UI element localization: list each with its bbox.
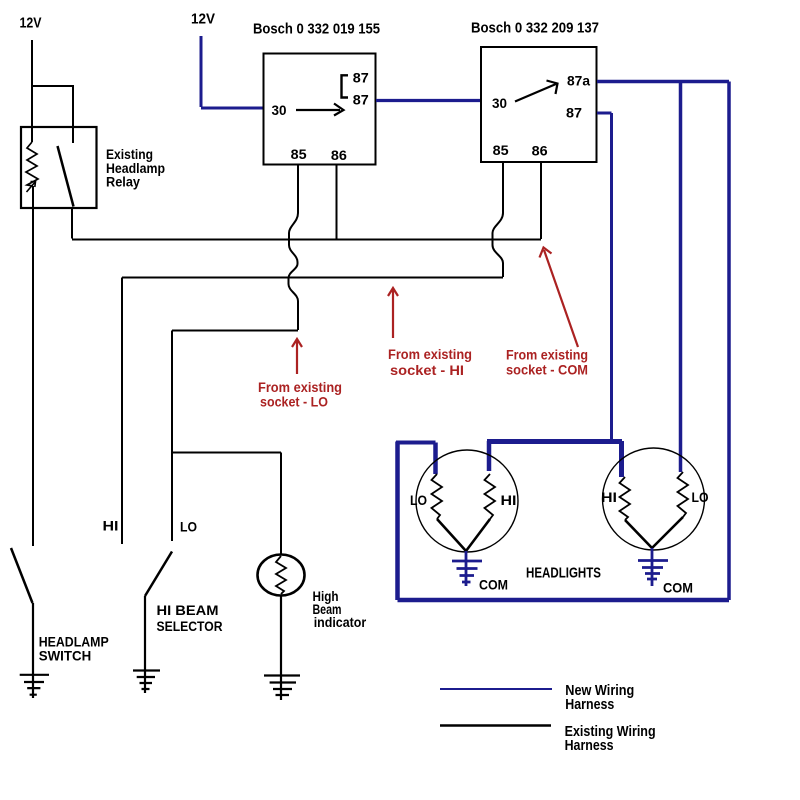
existing headlamp relay box xyxy=(21,127,97,208)
wire HI line horizontal xyxy=(122,277,503,279)
wire HI bus horizontal (new, blue) xyxy=(487,439,622,444)
svg-text:Bosch 0 332 209 137: Bosch 0 332 209 137 xyxy=(471,20,599,37)
svg-text:86: 86 xyxy=(331,148,348,163)
right HI filament xyxy=(620,477,631,520)
right HI filament lead xyxy=(625,520,652,548)
headlamp switch arm xyxy=(11,548,33,603)
wire U1 pin 86 down to COM line xyxy=(336,165,338,239)
wire relay output down xyxy=(71,208,73,239)
svg-text:COM: COM xyxy=(479,578,508,593)
high beam indicator lamp xyxy=(258,555,305,596)
wire LO loop bottom edge (new, blue) xyxy=(398,598,730,603)
wire HI drop to right headlight xyxy=(619,441,624,477)
left HI filament lead xyxy=(466,519,490,551)
relay coil (zigzag) xyxy=(26,142,38,186)
U1 87 bracket xyxy=(342,75,349,97)
wire U1 87 to U2 30 (new, blue) xyxy=(376,99,481,102)
wire HI drop to selector xyxy=(121,278,123,545)
hi beam selector arm xyxy=(145,552,172,597)
svg-text:Relay: Relay xyxy=(106,175,140,190)
wire 12V feed to relay U1 pin 30 (new, blue) xyxy=(201,36,263,108)
wire branch to existing relay switch contact xyxy=(31,86,73,143)
svg-text:HEADLAMP: HEADLAMP xyxy=(39,635,109,650)
svg-text:LO: LO xyxy=(692,490,709,505)
indicator filament xyxy=(276,556,286,594)
svg-text:HI: HI xyxy=(103,519,119,534)
svg-text:LO: LO xyxy=(180,520,197,535)
wire U2 87 HI feed (new, blue) xyxy=(597,113,612,440)
U1 contact arrow 30 to 87 xyxy=(296,104,344,116)
svg-text:12V: 12V xyxy=(20,15,42,32)
red arrow From existing socket LO xyxy=(292,339,302,374)
svg-text:SELECTOR: SELECTOR xyxy=(157,619,223,634)
wire U2 87a LO trunk (new, blue) xyxy=(597,80,729,84)
left LO filament lead xyxy=(437,519,466,551)
svg-text:Bosch 0 332 019 155: Bosch 0 332 019 155 xyxy=(253,21,380,38)
wire U2 pin 86 down to COM line xyxy=(540,163,542,239)
headlight left (lamp body) xyxy=(416,450,518,552)
legend existing wiring line (black) xyxy=(440,724,551,727)
ground COM right (blue) xyxy=(638,548,668,586)
left HI filament xyxy=(485,474,496,519)
svg-text:COM: COM xyxy=(663,581,693,596)
svg-text:HI: HI xyxy=(601,490,617,505)
svg-text:87: 87 xyxy=(566,106,582,121)
wire selector to ground xyxy=(144,596,146,693)
svg-text:Existing: Existing xyxy=(106,147,153,162)
headlight right (lamp body) xyxy=(603,448,705,550)
wire LO drop to left headlight xyxy=(433,443,438,475)
svg-text:socket - COM: socket - COM xyxy=(506,362,588,378)
svg-text:85: 85 xyxy=(493,143,510,158)
relay switch arm xyxy=(58,146,74,207)
svg-text:87: 87 xyxy=(353,92,369,107)
legend new wiring line (blue) xyxy=(440,688,552,690)
svg-text:indicator: indicator xyxy=(314,615,367,630)
svg-text:30: 30 xyxy=(492,96,507,111)
wire branch to high beam indicator xyxy=(172,453,281,556)
wire 87a branch to right headlight LO xyxy=(679,82,683,473)
svg-text:From existing: From existing xyxy=(506,347,588,363)
svg-text:30: 30 xyxy=(272,103,287,118)
svg-text:86: 86 xyxy=(532,144,549,159)
ground high beam indicator xyxy=(264,676,300,696)
left LO filament xyxy=(432,474,443,519)
svg-text:HI BEAM: HI BEAM xyxy=(157,603,219,618)
ground COM left (blue) xyxy=(452,551,482,586)
svg-text:Harness: Harness xyxy=(565,738,614,754)
svg-text:From existing: From existing xyxy=(388,346,472,362)
wire 87a right-side drop xyxy=(727,82,731,601)
red arrow From existing socket HI xyxy=(388,288,398,338)
wire coil to headlamp switch xyxy=(32,186,34,546)
right LO filament lead xyxy=(652,517,683,548)
wire LO drop to selector xyxy=(171,331,173,542)
wire HI drop to left headlight xyxy=(487,441,492,471)
ground hi beam selector xyxy=(133,671,160,690)
wire LO line horizontal xyxy=(172,330,298,332)
wire existing COM line to relay2 pin 86 xyxy=(72,239,541,241)
svg-text:SWITCH: SWITCH xyxy=(39,649,91,664)
relay U1 Bosch 0 332 019 155 box xyxy=(264,54,376,165)
svg-text:12V: 12V xyxy=(191,11,215,28)
wire LO loop top segment xyxy=(396,441,436,445)
svg-text:85: 85 xyxy=(291,147,308,162)
wire indicator to ground xyxy=(280,595,282,700)
wire U2 pin 85 down to HI line with crossover hop xyxy=(493,163,504,277)
svg-text:HI: HI xyxy=(501,493,517,508)
wire 12V feed to existing relay coil xyxy=(31,40,33,142)
svg-text:socket - HI: socket - HI xyxy=(390,362,464,378)
relay U2 Bosch 0 332 209 137 box xyxy=(481,47,597,162)
relay coil arrow xyxy=(27,182,36,193)
right LO filament xyxy=(678,472,689,517)
wire LO loop left edge xyxy=(395,442,400,601)
svg-text:87a: 87a xyxy=(567,74,590,89)
wire U1 pin 85 down (LO) with crossover hops xyxy=(289,165,299,330)
U2 contact arrow 30 to 87a xyxy=(515,81,558,102)
svg-text:LO: LO xyxy=(410,493,427,508)
ground headlamp switch xyxy=(20,675,49,695)
svg-text:87: 87 xyxy=(353,71,369,86)
svg-text:HEADLIGHTS: HEADLIGHTS xyxy=(526,565,601,582)
svg-text:socket - LO: socket - LO xyxy=(260,394,328,410)
red arrow From existing socket COM xyxy=(540,248,579,348)
svg-text:Harness: Harness xyxy=(565,697,614,713)
wire headlamp switch to ground xyxy=(32,603,34,698)
